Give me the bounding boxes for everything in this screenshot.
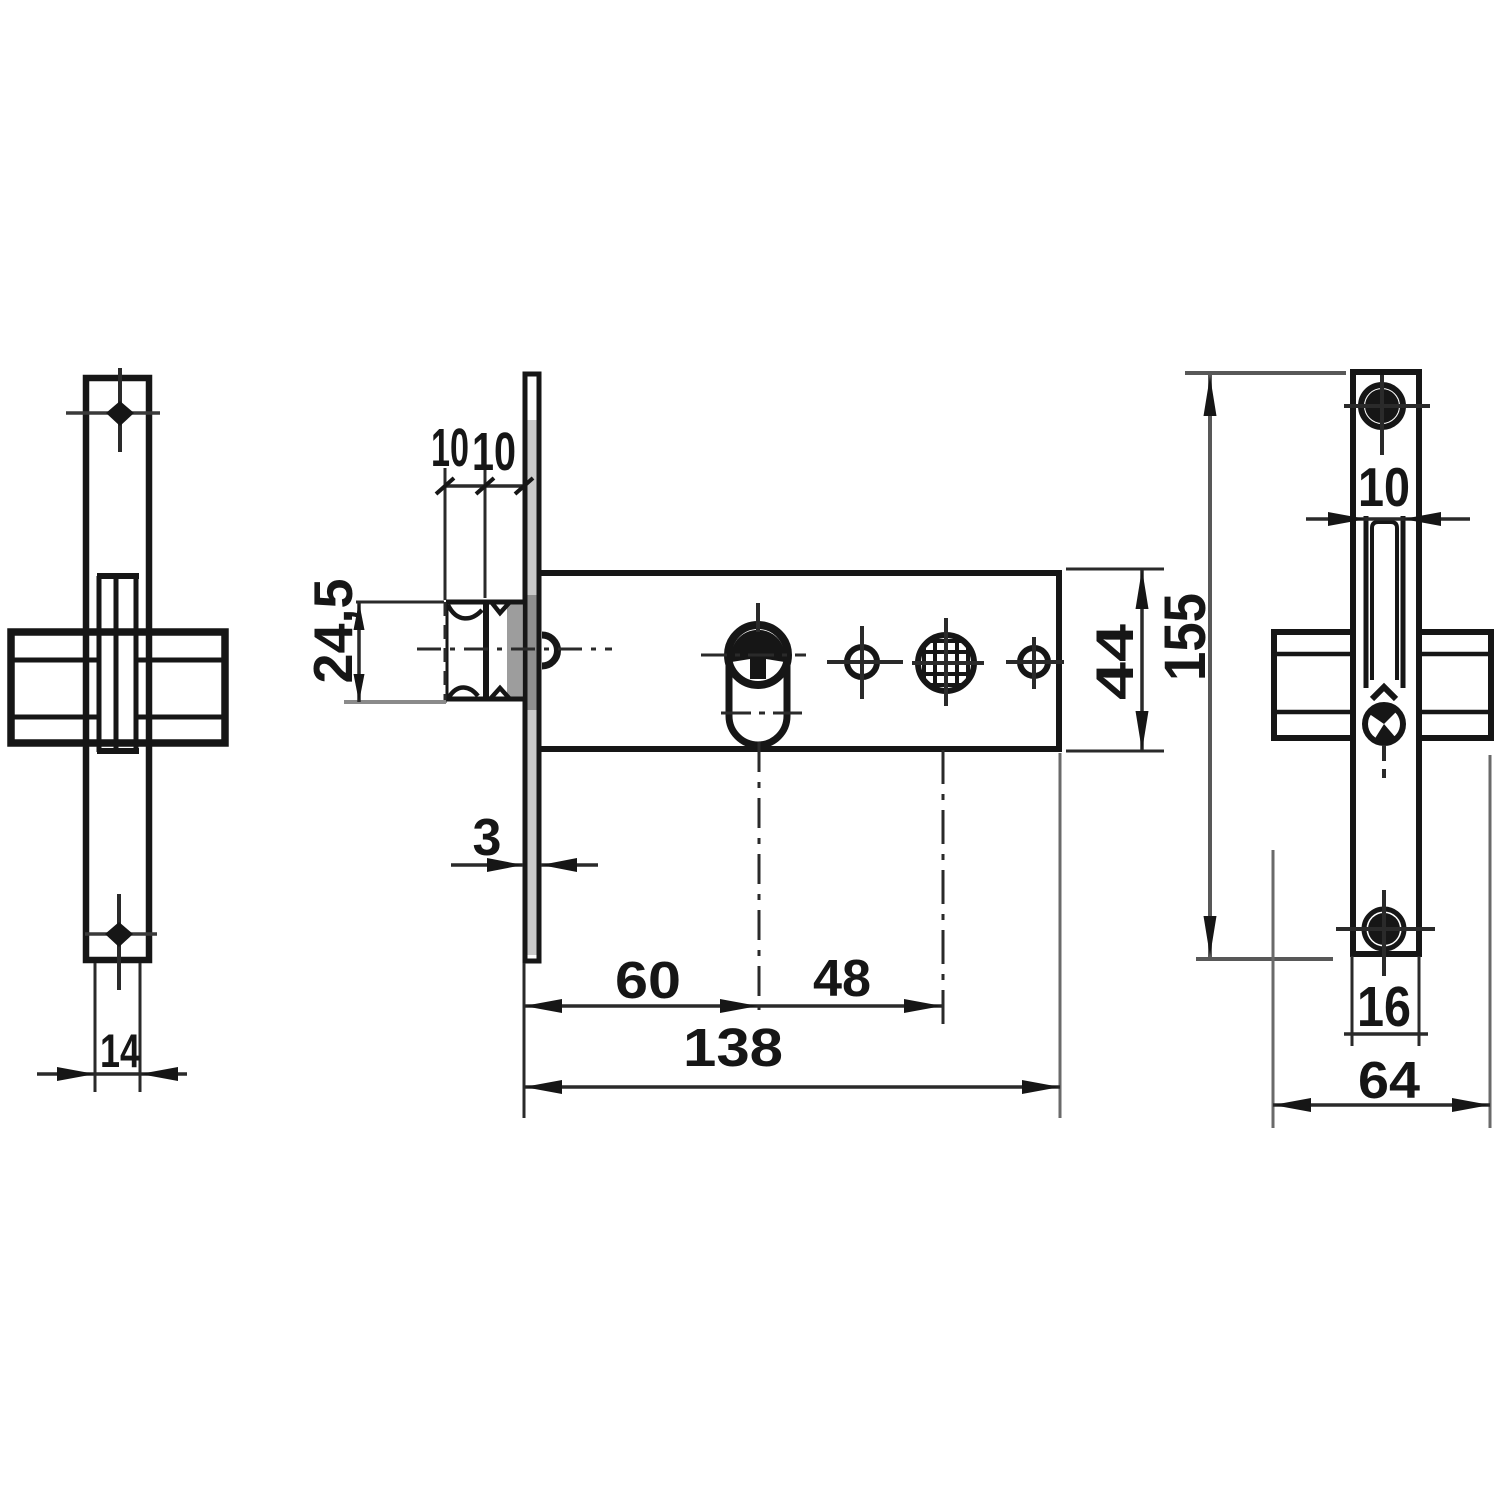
hole B crosshair v [1032, 637, 1036, 689]
arrow down [354, 674, 365, 702]
tick a [436, 478, 454, 494]
cylinder v-centerline top [756, 603, 760, 632]
arrow right [140, 1067, 178, 1081]
ext right [1418, 956, 1421, 1046]
lock body right edge [1056, 570, 1062, 752]
svg-text:60: 60 [615, 952, 681, 1010]
cylinder obround [729, 652, 787, 745]
arrow down [1136, 711, 1149, 751]
follower semicircle on faceplate [542, 635, 557, 666]
dim 24,5 [344, 602, 446, 702]
ext bottom [1196, 957, 1333, 961]
lock body bottom edge [539, 746, 1061, 752]
arrow tip left [487, 858, 523, 872]
dim 155 [1185, 373, 1346, 959]
dim 10 right [1306, 512, 1470, 526]
top hole crosshair h [1344, 404, 1430, 408]
dim line 138 [524, 1085, 1060, 1089]
bolt bottom notch [491, 688, 509, 698]
ext line b [484, 468, 487, 598]
cylinder v-centerline bottom dashes [758, 742, 761, 1010]
svg-text:48: 48 [813, 950, 871, 1008]
arrow left [1273, 1098, 1311, 1112]
dims 60 48 138 [524, 753, 1060, 1118]
strip top cap [97, 573, 139, 579]
ext left [1351, 956, 1354, 1046]
bottom hole crosshair v [1382, 890, 1386, 976]
ext bottom [344, 700, 446, 704]
cylinder dark fill [731, 630, 785, 679]
arrow 138 right [1022, 1080, 1060, 1094]
dim line 60-48 [524, 1004, 942, 1008]
ext top [356, 601, 444, 604]
cylinder h-centerline [701, 654, 806, 657]
spindle hole [918, 635, 974, 691]
dim 1010 [436, 468, 533, 703]
arrow up [1136, 569, 1149, 609]
left arrow line [451, 863, 523, 867]
tick c [515, 478, 533, 494]
center circle hole [1365, 705, 1403, 743]
latch slot outer right [1401, 516, 1406, 688]
svg-text:64: 64 [1358, 1052, 1420, 1110]
arrow tip left [1328, 512, 1366, 526]
svg-text:155: 155 [1153, 593, 1218, 681]
dim line [357, 602, 361, 702]
bottom hole crosshair v [117, 894, 121, 990]
arrow down [1204, 916, 1217, 956]
ext top [1066, 568, 1164, 571]
inner strip left line [97, 576, 102, 752]
hole A crosshair h [827, 660, 903, 664]
inner strip mid line [114, 576, 119, 752]
box inner line top-left [14, 658, 97, 663]
latch tip chevron [1372, 687, 1396, 699]
latch slot inner [1372, 522, 1397, 680]
bolt centerline dash-dot [417, 648, 612, 651]
top hole [106, 401, 134, 426]
bolt bottom curl [449, 687, 478, 697]
svg-text:44: 44 [1086, 623, 1145, 700]
bolt top curl [448, 605, 482, 618]
ext right [1489, 755, 1492, 1128]
bolt top notch [492, 603, 509, 613]
latch slot outer left [1364, 516, 1369, 688]
arrow at 942 [904, 999, 942, 1013]
vertical bar [86, 378, 149, 960]
bolt outline [446, 600, 523, 701]
tick b [476, 478, 494, 494]
box inner line bottom-right [138, 715, 222, 720]
ext top [1185, 371, 1346, 375]
arrow 138 left [524, 1080, 562, 1094]
center hole wedge a [1368, 704, 1398, 724]
lock body top edge [539, 570, 1061, 576]
svg-text:10: 10 [431, 418, 469, 478]
arrow right [1452, 1098, 1490, 1112]
ext bottom [1066, 750, 1164, 753]
ext line left [94, 963, 97, 1092]
svg-text:16: 16 [1357, 975, 1411, 1039]
top hole crosshair h [66, 411, 160, 415]
bottom screw hole ring [1364, 909, 1404, 949]
dim line [1306, 517, 1470, 521]
body bar left inner lines [1277, 652, 1353, 657]
hole B crosshair h [1006, 660, 1064, 664]
dim 16 [1344, 956, 1428, 1046]
body bar right inner lines [1419, 652, 1489, 657]
dim 3 [451, 858, 598, 872]
ext line a [444, 468, 447, 600]
cylinder chord line [721, 712, 802, 715]
strip bottom cap [97, 748, 139, 754]
box inner line top-right [138, 658, 222, 663]
dim line [1344, 1032, 1428, 1036]
bottom hole crosshair h [85, 932, 157, 936]
arrow up [1204, 376, 1217, 416]
hole A crosshair v [860, 626, 864, 699]
spindle crosshair v [944, 618, 948, 706]
top hole crosshair v [118, 368, 122, 452]
top screw hole fill [1365, 389, 1399, 423]
top hole crosshair v [1380, 375, 1384, 455]
svg-text:10: 10 [472, 422, 516, 482]
inner strip right line [134, 576, 139, 752]
ext right body [1059, 753, 1062, 1118]
dim line [1140, 569, 1144, 751]
arrow at 524 [524, 999, 562, 1013]
dim line [446, 484, 524, 488]
bottom hole [105, 922, 133, 947]
horizontal body box [11, 632, 225, 743]
faceplate edge-on [525, 374, 539, 961]
ext dashes a low [444, 602, 447, 703]
svg-text:10: 10 [1358, 456, 1410, 518]
hole A [847, 647, 877, 677]
center hole wedge b [1374, 724, 1396, 743]
ext left [1272, 850, 1275, 1128]
spindle crosshair h [912, 661, 984, 665]
svg-text:3: 3 [473, 809, 502, 867]
bottom hole crosshair h [1336, 927, 1435, 931]
spindle ext dashes down [942, 750, 945, 1030]
body bar right segment [1419, 629, 1492, 741]
svg-text:138: 138 [683, 1018, 783, 1078]
hole B [1020, 648, 1048, 676]
svg-text:24,5: 24,5 [302, 579, 364, 684]
ext line right [139, 963, 142, 1092]
dim 44 [1066, 569, 1164, 751]
cylinder circle [728, 625, 788, 685]
faceplate front [1353, 372, 1419, 954]
dim line [37, 1072, 187, 1076]
arrows at 758 [720, 999, 758, 1013]
arrow up [354, 602, 365, 630]
right arrow line [541, 863, 598, 867]
box inner line bottom-left [14, 715, 97, 720]
dim 64 [1273, 755, 1490, 1128]
arrow tip right [541, 858, 577, 872]
dim line [1208, 373, 1212, 959]
arrow left [57, 1067, 95, 1081]
faceplate gray shading [527, 420, 537, 955]
top screw hole ring [1361, 385, 1403, 427]
dim line [1273, 1103, 1490, 1107]
svg-text:14: 14 [100, 1024, 140, 1077]
dim 14 [37, 963, 187, 1092]
arrow tip right [1403, 512, 1441, 526]
bolt right gray band [507, 603, 522, 699]
ext faceplate [523, 963, 526, 1118]
faceplate darker shading near bolt [526, 595, 538, 710]
bottom screw hole fill [1368, 913, 1400, 945]
center hole v dashes [1382, 745, 1386, 778]
body bar left segment [1274, 629, 1353, 741]
